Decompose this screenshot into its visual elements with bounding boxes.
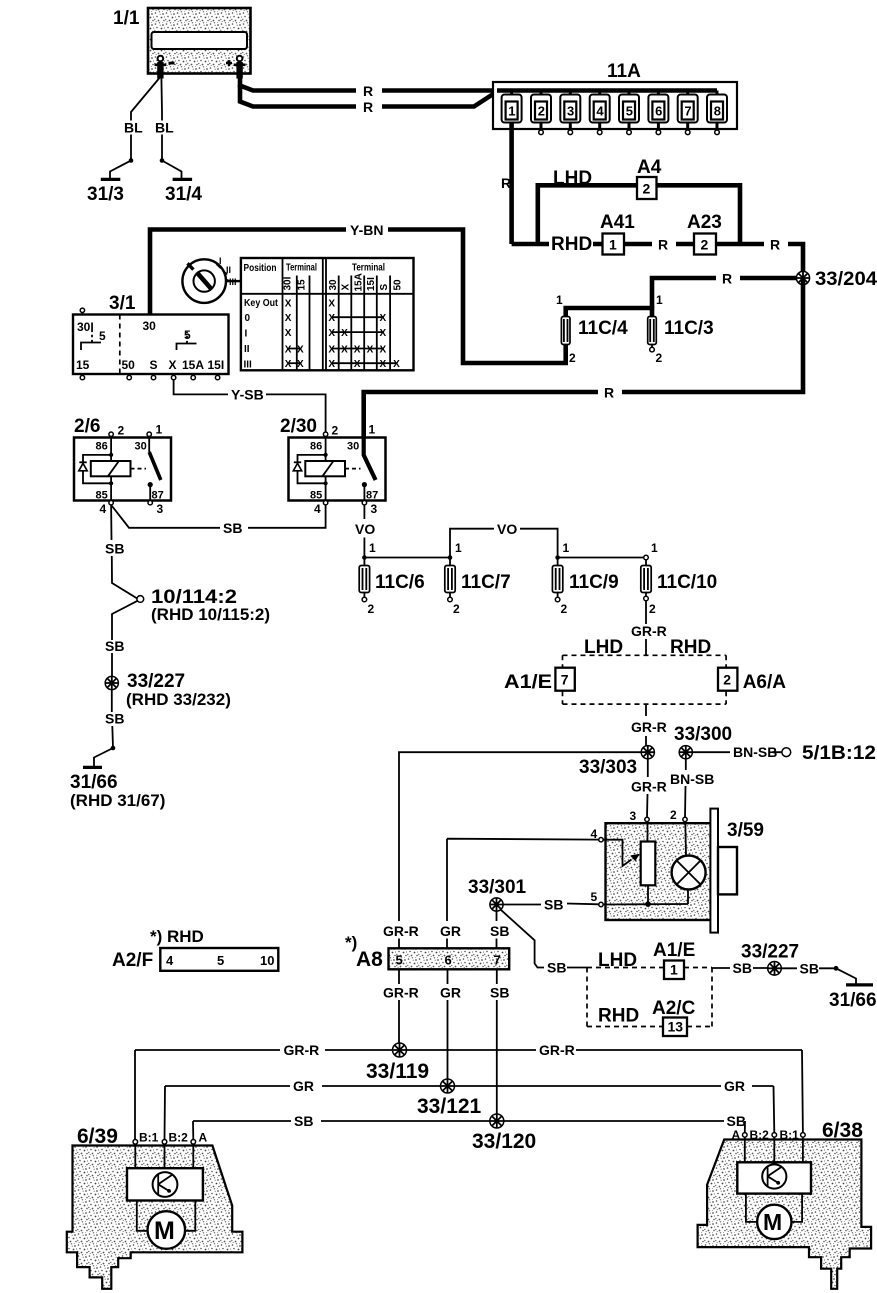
wire GR-R row: [135, 1049, 802, 1051]
wire SB to 6/39 A: [192, 1121, 194, 1140]
svg-text:A1/E: A1/E: [504, 672, 552, 693]
table marks row KeyOut: [285, 298, 336, 309]
splice 33/227 right: [741, 942, 799, 976]
svg-text:Position: Position: [244, 263, 277, 274]
wiper motor 6/38 housing: [698, 1119, 872, 1289]
svg-text:VO: VO: [497, 521, 517, 537]
6/38 relay K box: [737, 1162, 811, 1193]
wire 11C/3 pin2 stub: [651, 345, 653, 348]
6/38 motor M: [757, 1205, 791, 1239]
connector A6/A pin 2: [718, 668, 786, 693]
svg-text:2/30: 2/30: [280, 416, 317, 437]
6/39 pin wires into relay box: [135, 1144, 193, 1168]
svg-text:13: 13: [668, 1019, 684, 1035]
svg-text:R: R: [363, 83, 373, 99]
wire SB right of dashed box: [712, 967, 767, 969]
splice 33/121: [417, 1079, 482, 1118]
svg-text:5: 5: [396, 953, 403, 968]
svg-text:LHD: LHD: [553, 168, 592, 189]
svg-text:Terminal: Terminal: [352, 263, 385, 274]
svg-text:X: X: [341, 328, 348, 339]
svg-text:X: X: [354, 359, 361, 370]
3/59 pin 2: [670, 808, 687, 822]
svg-text:R: R: [722, 271, 732, 287]
svg-text:X: X: [393, 359, 400, 370]
svg-text:7: 7: [561, 672, 569, 688]
wire R from fuse 1 down: [509, 123, 514, 245]
svg-text:X: X: [367, 345, 374, 356]
fuse 11C/10: [641, 560, 717, 616]
svg-text:VO: VO: [355, 521, 375, 537]
svg-text:3: 3: [630, 809, 637, 823]
svg-text:31/66: 31/66: [70, 772, 118, 793]
2/6 coil: [91, 436, 131, 500]
svg-text:11C/3: 11C/3: [664, 318, 714, 339]
2/30 bottom pins: [314, 501, 378, 517]
wire BL to 31/4: [160, 78, 163, 161]
2/6 switch arm: [131, 436, 161, 500]
6/39 pin A: [191, 1131, 208, 1145]
svg-text:2: 2: [670, 808, 677, 822]
wire LHD loop: [538, 185, 740, 244]
svg-text:R: R: [501, 175, 511, 191]
svg-text:LHD: LHD: [584, 637, 623, 658]
wire SB 33/301 to A8 pin7: [496, 911, 498, 948]
svg-text:R: R: [658, 237, 668, 253]
fuse 8: [707, 91, 727, 135]
wire SB continuing: [112, 601, 138, 677]
svg-text:4: 4: [314, 502, 321, 516]
svg-text:S: S: [150, 358, 158, 372]
fuse 4: [590, 91, 610, 135]
svg-text:X: X: [297, 359, 304, 370]
svg-text:Key Out: Key Out: [244, 298, 279, 309]
svg-text:1: 1: [455, 541, 462, 555]
label R upper: [356, 83, 382, 99]
fuse 11C/9: [552, 558, 618, 617]
6/39 wires K box to motor: [137, 1201, 196, 1231]
svg-text:30: 30: [347, 441, 359, 453]
wire Y-BN from 3/1 pin30 to 11C/4: [150, 230, 566, 364]
svg-text:2: 2: [561, 602, 568, 616]
svg-text:1: 1: [369, 423, 376, 437]
relay 2/6: [74, 416, 171, 502]
svg-text:GR: GR: [440, 923, 461, 939]
table marks row I: [285, 328, 387, 339]
svg-text:GR-R: GR-R: [383, 985, 419, 1001]
svg-text:III: III: [244, 360, 253, 371]
wire SB A8 pin7 down: [496, 969, 498, 1114]
splice 33/119: [366, 1043, 429, 1083]
label R on lower bus: [598, 385, 622, 401]
svg-text:3: 3: [371, 502, 378, 516]
svg-text:1: 1: [609, 237, 617, 253]
connector 10/114:2: [137, 587, 270, 624]
wire to ground: [836, 968, 856, 983]
splice 33/120: [472, 1114, 536, 1153]
svg-text:30: 30: [135, 441, 147, 453]
svg-text:BN-SB: BN-SB: [733, 744, 777, 760]
svg-text:R: R: [363, 99, 373, 115]
svg-text:50: 50: [393, 279, 404, 291]
svg-text:R: R: [770, 237, 780, 253]
svg-text:5/1B:12: 5/1B:12: [802, 743, 876, 764]
svg-text:X: X: [328, 298, 335, 309]
wire GR-R to 6/39 B:1: [134, 1050, 136, 1140]
svg-text:GR-R: GR-R: [631, 779, 667, 795]
svg-text:87: 87: [152, 490, 164, 502]
splice 33/303: [579, 746, 654, 778]
key symbol: [182, 256, 236, 303]
node dot above ground: [111, 746, 116, 751]
6/38 pin A: [732, 1128, 748, 1142]
svg-text:5: 5: [99, 329, 106, 343]
svg-text:2: 2: [118, 424, 125, 438]
svg-text:1: 1: [156, 423, 163, 437]
wire GR A8 pin6 down: [447, 969, 449, 1079]
wire SB row: [193, 1120, 724, 1122]
battery 1/1: [113, 8, 251, 74]
svg-text:SB: SB: [490, 985, 509, 1001]
svg-text:X: X: [380, 345, 387, 356]
rheostat unit 3/59: [606, 809, 764, 933]
wire VO from 2/30 pin3: [363, 505, 365, 558]
6/38 pin B:2: [750, 1128, 777, 1142]
wire to ground 31/3: [110, 161, 131, 179]
svg-text:BN-SB: BN-SB: [670, 771, 714, 787]
wire SB 33/301 diagonal to LHD line: [501, 910, 544, 968]
svg-text:11C/10: 11C/10: [657, 572, 717, 593]
wire 11C/9 to 11C/10: [558, 557, 643, 559]
wire R bus lower: [364, 278, 803, 438]
battery plus terminal: [226, 56, 246, 79]
fuse 1: [502, 91, 522, 123]
svg-text:M: M: [154, 1217, 175, 1245]
svg-text:SB: SB: [544, 897, 563, 913]
svg-text:2: 2: [332, 424, 339, 438]
wire RHD line: [512, 244, 803, 278]
3/59 lamp: [672, 822, 706, 904]
3/59 pin 4: [591, 827, 604, 842]
bus wire inside 11A: [497, 88, 717, 93]
svg-text:1: 1: [656, 293, 663, 307]
splice 33/301: [468, 877, 527, 911]
svg-text:BL: BL: [124, 120, 143, 136]
3/1 contact right with 5: [177, 328, 197, 350]
table marks row 0: [285, 313, 387, 324]
svg-text:50: 50: [122, 358, 136, 372]
wire R battery to fuse box (lower): [240, 85, 497, 107]
svg-text:X: X: [285, 345, 292, 356]
svg-text:87: 87: [366, 490, 378, 502]
wire SB to ground 31/66 right: [781, 967, 836, 969]
svg-text:30I: 30I: [283, 276, 294, 290]
svg-text:2: 2: [538, 104, 545, 119]
node 11C/7 pin1: [448, 555, 453, 560]
svg-text:33/120: 33/120: [472, 1130, 536, 1153]
label R after A23: [764, 237, 788, 253]
splice 33/300: [674, 724, 732, 759]
svg-text:RHD: RHD: [670, 637, 711, 658]
wire GR row: [165, 1085, 774, 1087]
svg-text:A2/C: A2/C: [652, 998, 696, 1019]
svg-text:7: 7: [494, 953, 501, 968]
wire BN-SB right to 5/1B:12: [692, 751, 781, 753]
svg-text:R: R: [604, 385, 614, 401]
connector A4: [637, 157, 662, 199]
node dot BL left: [129, 158, 134, 163]
node dot: [834, 966, 839, 971]
wire to ground 31/66: [94, 748, 113, 766]
svg-text:BL: BL: [155, 120, 174, 136]
fuse 5: [619, 91, 639, 135]
dashed box A1/E-A2/C: [587, 950, 712, 1027]
wire GR-R A8 pin5 up to 33/303 line (already drawn top): [398, 939, 400, 949]
svg-text:(RHD 33/232): (RHD 33/232): [126, 690, 231, 709]
svg-text:GR: GR: [440, 985, 461, 1001]
svg-text:2: 2: [701, 237, 709, 253]
6/38 wires K box to motor: [746, 1194, 802, 1222]
svg-text:SB: SB: [294, 1113, 313, 1129]
svg-text:I: I: [219, 256, 222, 266]
wire BL to 31/3: [131, 78, 159, 161]
connector A2/F: [112, 948, 278, 971]
3/59 internal junction: [603, 901, 688, 907]
svg-text:33/119: 33/119: [366, 1060, 429, 1083]
svg-text:3: 3: [157, 502, 164, 516]
svg-text:1: 1: [563, 541, 570, 555]
3/1 contact left with 5: [81, 329, 106, 350]
label R between A41 A23: [652, 237, 676, 253]
svg-text:S: S: [379, 284, 390, 291]
splice 33/227: [105, 671, 231, 709]
node 11C/6 pin1: [362, 555, 367, 560]
svg-text:1: 1: [369, 541, 376, 555]
wire R branch to 11C/3: [652, 278, 803, 308]
svg-text:30: 30: [328, 279, 339, 291]
fuse 6: [648, 91, 668, 135]
svg-text:5: 5: [591, 890, 598, 904]
svg-text:11C/4: 11C/4: [578, 318, 628, 339]
ground 31/66 right: [829, 985, 877, 1011]
svg-text:1/1: 1/1: [113, 8, 140, 29]
wire GR-R left from 33/303: [399, 752, 641, 921]
ground 31/4: [173, 178, 193, 181]
splice 33/204: [796, 269, 877, 290]
connector A1/E pin 7: [504, 668, 575, 693]
6/39 pin B:2: [162, 1131, 188, 1145]
svg-text:15A: 15A: [353, 273, 364, 291]
svg-text:86: 86: [310, 441, 322, 453]
svg-text:33/227: 33/227: [741, 942, 799, 963]
svg-text:4: 4: [596, 104, 604, 119]
svg-text:X: X: [380, 313, 387, 324]
svg-text:X: X: [380, 328, 387, 339]
svg-text:86: 86: [96, 441, 108, 453]
pin circle 11C/3 pin2: [650, 347, 655, 352]
2/30 switch arm (heavy from R bus): [345, 438, 376, 501]
wire SB 33/301 to 3/59 pin5: [503, 904, 599, 905]
svg-text:GR-R: GR-R: [631, 623, 667, 639]
svg-text:A23: A23: [687, 212, 722, 233]
fuse 11C/7: [445, 558, 511, 617]
svg-text:6: 6: [655, 104, 662, 119]
2/6 bottom pins: [100, 501, 164, 517]
svg-text:X: X: [285, 359, 292, 370]
wire SB to ground: [112, 690, 113, 748]
dashed connector box A1/E-A6/A: [563, 637, 727, 704]
svg-text:2: 2: [368, 602, 375, 616]
svg-text:A: A: [199, 1131, 208, 1145]
svg-text:SB: SB: [727, 1113, 746, 1129]
svg-text:*) RHD: *) RHD: [150, 927, 204, 946]
svg-text:A41: A41: [600, 212, 635, 233]
wire SB between relay pins 4: [111, 505, 326, 528]
svg-text:6: 6: [445, 953, 452, 968]
wire pin1 bus 11C/6 to 11C/7: [364, 557, 450, 559]
svg-text:1: 1: [651, 541, 658, 555]
svg-text:A1/E: A1/E: [653, 940, 695, 961]
svg-text:GR-R: GR-R: [383, 923, 419, 939]
svg-text:2: 2: [453, 602, 460, 616]
svg-text:5: 5: [217, 953, 224, 968]
3/59 pin 5: [591, 890, 604, 907]
svg-text:3/1: 3/1: [109, 293, 136, 314]
svg-text:3: 3: [567, 104, 574, 119]
svg-text:33/300: 33/300: [674, 724, 732, 745]
svg-text:15A: 15A: [182, 358, 204, 372]
svg-text:31/3: 31/3: [87, 184, 124, 205]
svg-text:33/303: 33/303: [579, 757, 637, 778]
fuse 7: [678, 91, 698, 135]
6/38 pin B:1: [780, 1128, 806, 1142]
label R lower: [356, 99, 382, 115]
svg-text:31/66: 31/66: [829, 990, 877, 1011]
wire GR to 6/39 B:2: [164, 1086, 167, 1140]
svg-text:M: M: [763, 1209, 782, 1235]
svg-text:33/301: 33/301: [468, 877, 527, 898]
fuse box 11A: [493, 61, 737, 129]
svg-text:2: 2: [649, 602, 656, 616]
svg-text:30: 30: [143, 319, 157, 333]
svg-text:SB: SB: [105, 541, 124, 557]
svg-text:85: 85: [96, 490, 108, 502]
svg-text:RHD: RHD: [551, 234, 592, 255]
wire R battery to fuse box (upper): [240, 74, 497, 91]
wire GR-R to 6/38 B:1: [801, 1050, 804, 1133]
pin circle 11C/10 pin1: [644, 555, 649, 560]
svg-text:SB: SB: [547, 960, 566, 976]
wire SB into dashed box: [567, 967, 587, 969]
svg-text:11A: 11A: [607, 61, 641, 82]
svg-text:15I: 15I: [208, 358, 225, 372]
svg-text:II: II: [226, 265, 231, 275]
connector A2/C pin 13: [652, 998, 696, 1036]
svg-text:1: 1: [556, 293, 563, 307]
svg-text:B:2: B:2: [750, 1128, 770, 1142]
wire SB to 6/38 A: [744, 1121, 746, 1133]
wire GR 3/59 pin4 to A8 pin6: [447, 839, 599, 949]
svg-text:X: X: [328, 328, 335, 339]
svg-text:1: 1: [670, 962, 678, 978]
svg-text:X: X: [285, 328, 292, 339]
svg-text:33/121: 33/121: [417, 1095, 482, 1118]
label RHD: [549, 234, 593, 255]
svg-text:2: 2: [569, 351, 576, 365]
svg-text:(RHD 31/67): (RHD 31/67): [70, 791, 165, 810]
svg-text:11C/9: 11C/9: [569, 572, 619, 593]
svg-text:X: X: [328, 345, 335, 356]
connector A41: [600, 212, 635, 255]
wire 11C/4 pin1 to 11C/3 pin1: [566, 308, 652, 317]
svg-text:GR-R: GR-R: [631, 719, 667, 735]
svg-text:5: 5: [184, 328, 191, 342]
3/59 potentiometer resistor: [641, 822, 656, 905]
label R on branch: [716, 271, 740, 287]
wire GR-R below dashed box: [645, 704, 647, 746]
svg-text:B:1: B:1: [780, 1128, 800, 1142]
6/39 relay K box: [127, 1168, 203, 1200]
ground 31/66: [70, 767, 165, 810]
svg-text:SB: SB: [800, 961, 819, 977]
wire Y-SB 3/1 X to relay 2/30 pin 2: [174, 380, 326, 432]
svg-text:2/6: 2/6: [74, 416, 100, 437]
svg-text:Y-BN: Y-BN: [350, 222, 383, 238]
2/6 diode: [79, 455, 111, 483]
fuse 11C/4: [561, 317, 628, 366]
6/39 motor M: [148, 1211, 186, 1249]
svg-text:10: 10: [260, 953, 274, 968]
position table: [241, 258, 414, 371]
svg-text:8: 8: [714, 104, 721, 119]
svg-text:RHD: RHD: [598, 1006, 639, 1027]
svg-text:11C/7: 11C/7: [461, 572, 511, 593]
svg-text:A6/A: A6/A: [743, 672, 787, 693]
svg-text:7: 7: [684, 104, 691, 119]
svg-text:0: 0: [245, 313, 251, 324]
svg-text:I: I: [245, 329, 248, 340]
svg-text:2: 2: [643, 181, 651, 197]
3/59 pin 3: [630, 809, 650, 823]
svg-text:11C/6: 11C/6: [375, 572, 425, 593]
fuse 3: [560, 91, 580, 135]
2/30 coil: [305, 436, 345, 500]
6/39 pin B:1: [133, 1131, 159, 1145]
svg-text:GR: GR: [293, 1078, 314, 1094]
node dot BL right: [160, 158, 165, 163]
svg-text:4: 4: [100, 502, 107, 516]
svg-text:3/59: 3/59: [727, 820, 764, 841]
svg-text:X: X: [328, 313, 335, 324]
svg-text:4: 4: [166, 953, 174, 968]
svg-text:15I: 15I: [366, 277, 377, 291]
6/38 pin wires into relay box: [745, 1137, 803, 1162]
2/30 diode: [293, 455, 325, 483]
battery minus terminal: [155, 56, 175, 79]
relay 2/30: [280, 416, 386, 502]
svg-text:X: X: [354, 345, 361, 356]
ignition switch 3/1: [73, 293, 229, 374]
svg-text:15: 15: [76, 358, 90, 372]
svg-text:X: X: [285, 313, 292, 324]
wire to ground 31/4: [162, 161, 182, 179]
table marks row III: [285, 359, 400, 370]
svg-text:5: 5: [626, 104, 633, 119]
svg-text:SB: SB: [223, 520, 242, 536]
wire GR-R from 33/303 down to 3/59 pin3: [646, 759, 649, 818]
svg-text:(RHD 10/115:2): (RHD 10/115:2): [151, 605, 270, 624]
svg-text:SB: SB: [105, 711, 124, 727]
